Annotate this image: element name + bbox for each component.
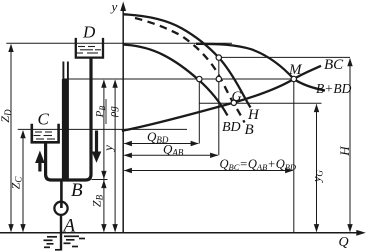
curve B+BD (combined supply) bbox=[196, 44, 325, 91]
svg-text:D: D bbox=[82, 23, 96, 42]
dimension Z_D bbox=[8, 44, 13, 233]
vertical from circle on BD down to Q_BD arrow bbox=[198, 79, 200, 144]
dimension Q_BD bbox=[124, 141, 199, 146]
y axis bbox=[120, 2, 126, 233]
level line z_D bbox=[6, 42, 232, 44]
dimension y (piezometric head of B) bbox=[112, 80, 117, 233]
piezometer tube walls bbox=[62, 62, 64, 80]
tank D bbox=[76, 38, 103, 58]
node M bbox=[291, 76, 296, 81]
svg-text:M: M bbox=[288, 62, 303, 78]
svg-text:H: H bbox=[337, 146, 352, 157]
dimension H bbox=[347, 58, 352, 232]
sump water marks at A bbox=[44, 236, 86, 250]
Q axis (datum line) bbox=[0, 230, 366, 236]
dimension Q_AB bbox=[124, 153, 219, 158]
dimension Q_BC bbox=[124, 168, 294, 173]
flow arrow up into C bbox=[35, 151, 45, 172]
svg-text:B+BD: B+BD bbox=[316, 81, 352, 96]
svg-text:G: G bbox=[232, 90, 242, 105]
svg-text:A: A bbox=[62, 216, 76, 237]
svg-text:H: H bbox=[247, 107, 260, 123]
piezometer liquid column bbox=[62, 79, 69, 181]
vertical at Q_AB through circles bbox=[218, 58, 220, 156]
curve B (dashed: pump minus pipe losses) bbox=[135, 18, 245, 123]
pump riser pipe bbox=[60, 180, 63, 208]
label P_B over rho-g (rotated fraction) bbox=[94, 99, 119, 124]
dimension y_G bbox=[314, 104, 319, 232]
tank D water marks bbox=[77, 47, 102, 54]
svg-text:BD: BD bbox=[222, 120, 241, 135]
svg-text:BC: BC bbox=[324, 57, 344, 73]
level line through G bbox=[199, 102, 321, 104]
pipe from C down, manifold at B, pipe up to D bbox=[46, 59, 91, 181]
piezometric line at B bbox=[63, 78, 294, 80]
svg-text:B: B bbox=[71, 180, 83, 201]
node circle on BD at piezo line bbox=[197, 76, 202, 81]
B elevation extension line bbox=[92, 179, 108, 181]
suction pipe below pump bbox=[60, 215, 62, 251]
node G bbox=[231, 100, 236, 105]
node circle on H at Q_AB bbox=[216, 55, 221, 60]
svg-text:ρg: ρg bbox=[107, 106, 119, 118]
svg-text:y: y bbox=[110, 0, 118, 14]
svg-text:B: B bbox=[245, 122, 254, 138]
dimension Z_C bbox=[20, 130, 25, 232]
svg-text:Q: Q bbox=[339, 235, 349, 250]
node circle on B at piezo line bbox=[216, 76, 221, 81]
vertical below M bbox=[293, 79, 295, 233]
tank C bbox=[32, 124, 59, 143]
tank C water marks bbox=[34, 132, 56, 139]
level line at H (pump head at M) bbox=[219, 56, 350, 58]
svg-text:y: y bbox=[101, 145, 116, 153]
curve BC (demand of tank C) bbox=[122, 66, 321, 131]
dimension P_B/rho-g + Z_B (one vertical line) bbox=[101, 80, 106, 233]
curve H (pump curve) bbox=[123, 14, 250, 107]
pump circle bbox=[54, 202, 67, 215]
curve BD (gravity feed from D) bbox=[123, 45, 227, 116]
flow arrow down from D bbox=[92, 131, 102, 163]
svg-text:C: C bbox=[38, 110, 50, 129]
level line z_C bbox=[18, 128, 187, 130]
